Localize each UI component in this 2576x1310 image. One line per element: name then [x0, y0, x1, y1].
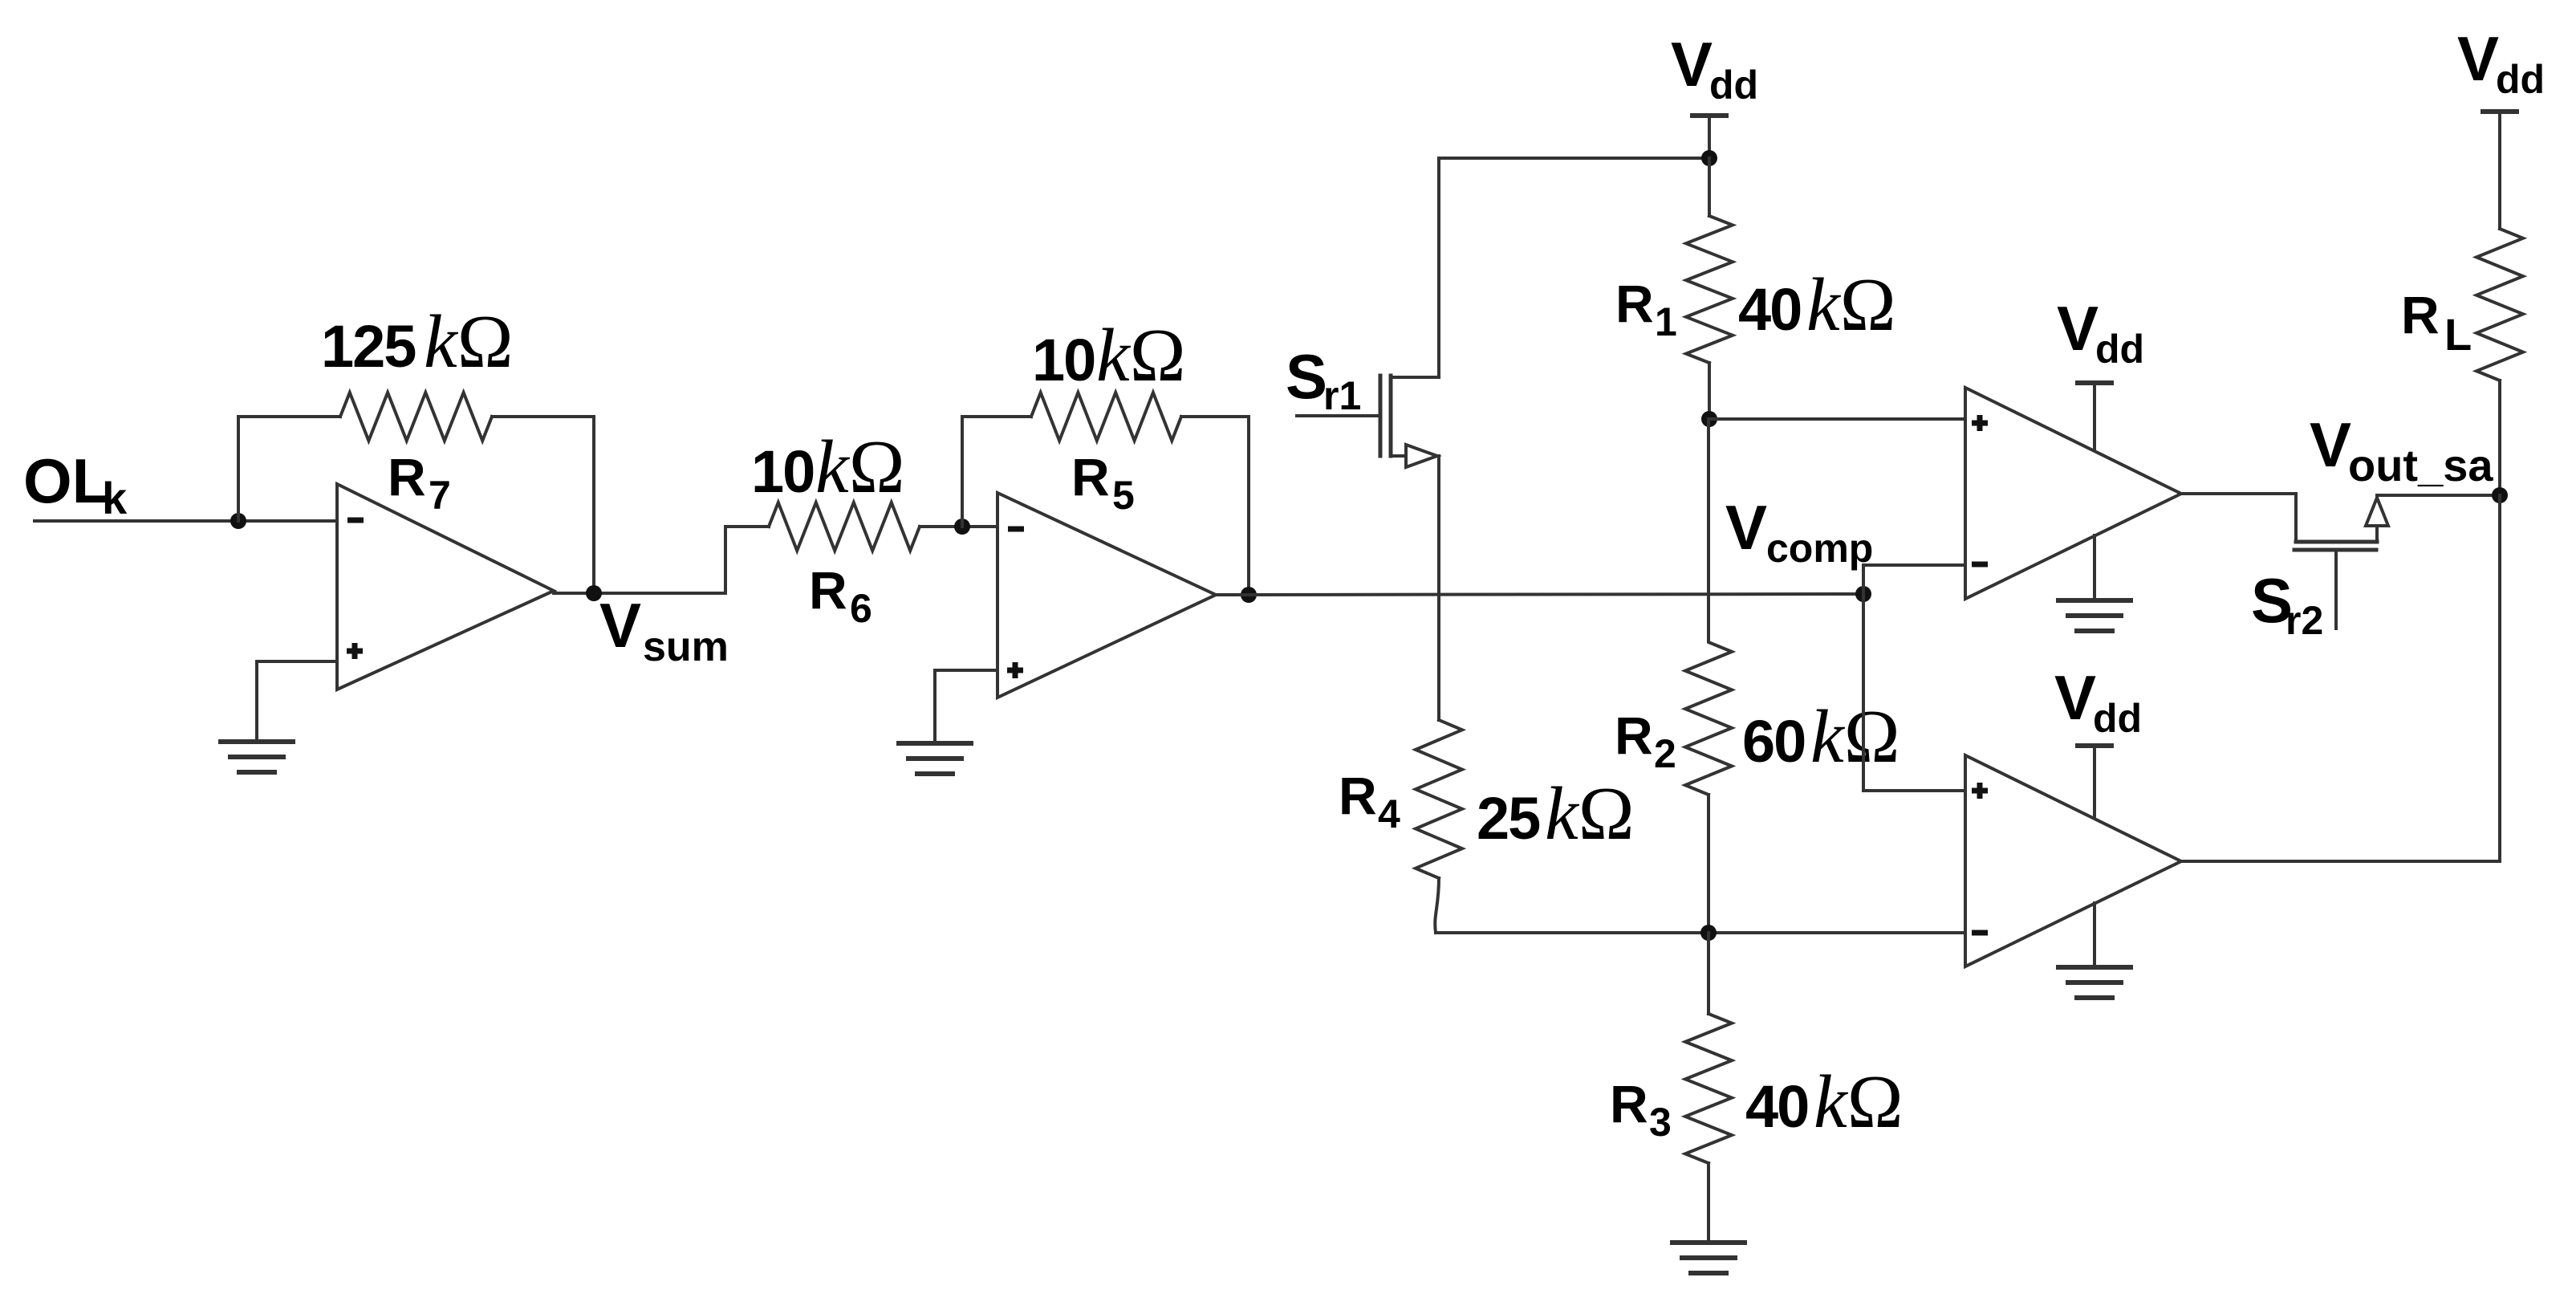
wire Sr1 drain arm: [1391, 158, 1439, 377]
svg-text:comp: comp: [1766, 526, 1873, 571]
resistor R3 40k zigzag: [1685, 1014, 1732, 1163]
wire U3 ground stem: [2093, 535, 2096, 600]
label R2 reference: [1615, 706, 1676, 776]
svg-text:R: R: [809, 560, 847, 620]
svg-text:60: 60: [1742, 708, 1805, 775]
wire Sr2 source to Vout node: [2377, 494, 2500, 497]
wire Sr2 drain jog down: [2294, 494, 2298, 542]
node Vcomp junction: [1855, 586, 1871, 602]
label 40 kOhm value of R1: [1738, 263, 1896, 347]
resistor R4 25k zigzag: [1416, 720, 1462, 933]
power Vdd symbol above U3: [2075, 383, 2114, 450]
label 40 kOhm value of R3: [1745, 1060, 1904, 1144]
svg-text:sum: sum: [643, 624, 729, 670]
label Vsum: [599, 590, 729, 670]
wire Vcomp to U3 inverting input: [1863, 565, 1965, 594]
power Vdd symbol above RL: [2481, 112, 2519, 229]
op-amp U2 triangle: [997, 493, 1216, 698]
wire R7 left lead: [238, 415, 340, 418]
label Vout_sa: [2310, 409, 2493, 490]
wire feedback left vertical: [237, 417, 240, 521]
node R2-R3 junction: [1700, 925, 1717, 941]
op-amp U1 plus marker: [347, 643, 363, 659]
wire RL bottom lead: [2498, 380, 2501, 495]
wire Vout down right rail: [2498, 495, 2501, 861]
svg-text:kΩ: kΩ: [1814, 1060, 1904, 1144]
wire R3 bottom lead: [1707, 1163, 1710, 1243]
svg-text:dd: dd: [2496, 57, 2545, 102]
wire R6 right lead: [920, 525, 997, 528]
wire R5 left lead: [962, 415, 1031, 418]
label R5 reference: [1071, 447, 1135, 518]
svg-text:R: R: [1615, 274, 1654, 333]
svg-text:125: 125: [321, 313, 416, 380]
svg-text:R: R: [1615, 706, 1653, 765]
svg-text:7: 7: [429, 473, 451, 518]
label Vdd above RL: [2457, 23, 2545, 102]
wire R1 bottom lead: [1708, 363, 1711, 419]
label 25 kOhm value of R4: [1477, 772, 1635, 856]
svg-text:40: 40: [1745, 1073, 1808, 1140]
label R6 reference: [809, 560, 872, 631]
label Vcomp: [1725, 492, 1873, 571]
op-amp comparator U4 triangle: [1965, 755, 2181, 966]
op-amp U1 minus marker: [347, 518, 364, 523]
op-amp U3 minus marker: [1972, 562, 1988, 568]
wire U2 output to Vcomp: [1216, 594, 1863, 595]
label 60 kOhm value of R2: [1742, 695, 1900, 779]
transistor Q2 source arrow: [2366, 498, 2388, 526]
svg-text:V: V: [2057, 293, 2099, 364]
transistor Q1 Sr1 channel bar: [1389, 376, 1393, 456]
svg-text:r2: r2: [2285, 598, 2323, 643]
wire OLk input: [35, 519, 337, 523]
label 10 kOhm value of R5: [1032, 314, 1186, 397]
label R3 reference: [1610, 1074, 1672, 1145]
wire R7 right lead: [492, 415, 594, 418]
power Vdd symbol above U4: [2075, 746, 2114, 818]
svg-text:kΩ: kΩ: [1810, 695, 1900, 779]
wire R5 right lead: [1181, 415, 1249, 418]
wire Sr1 gate lead: [1297, 414, 1378, 417]
transistor Q2 Sr2 channel bar: [2296, 540, 2377, 544]
svg-text:dd: dd: [2093, 696, 2142, 741]
label Vdd above U3: [2057, 293, 2144, 372]
wire feedback right vertical to Vsum: [592, 417, 595, 593]
svg-text:r1: r1: [1323, 373, 1361, 418]
node Vsum junction: [586, 585, 602, 601]
wire node to comparator U3 plus input: [1709, 417, 1965, 421]
svg-text:10: 10: [751, 438, 814, 505]
node junction at inverting input of U2: [954, 519, 970, 535]
svg-text:OL: OL: [23, 445, 110, 516]
wire Sr2 arrow stem: [2375, 526, 2379, 542]
svg-text:1: 1: [1655, 299, 1677, 344]
svg-text:V: V: [1725, 492, 1767, 563]
wire Sr1 source down to R4: [1437, 456, 1440, 720]
transistor Q2 Sr2 gate plate: [2294, 548, 2376, 552]
svg-text:R: R: [1339, 766, 1377, 825]
svg-text:L: L: [2444, 309, 2472, 360]
resistor R7 125k zigzag: [340, 393, 492, 441]
wire R6 left lead: [725, 525, 769, 528]
svg-text:R: R: [1610, 1074, 1648, 1133]
ground below U4: [2056, 967, 2133, 998]
label Vdd above R1: [1671, 29, 1758, 108]
transistor Q1 Sr1 gate plate: [1379, 376, 1383, 456]
wire jog up to R6: [724, 527, 727, 593]
svg-text:V: V: [2310, 409, 2351, 480]
wire top rail to Vdd node: [1439, 157, 1709, 160]
wire U1 output: [554, 592, 725, 595]
node U2 output junction: [1241, 587, 1257, 603]
svg-text:kΩ: kΩ: [424, 300, 514, 384]
op-amp U2 minus marker: [1008, 527, 1024, 532]
ground below R3: [1670, 1243, 1747, 1273]
label RL reference: [2401, 285, 2472, 360]
svg-text:kΩ: kΩ: [1096, 314, 1186, 397]
svg-text:6: 6: [850, 586, 872, 631]
svg-text:R: R: [388, 447, 426, 507]
svg-text:kΩ: kΩ: [1806, 263, 1896, 347]
op-amp U2 plus marker: [1007, 662, 1023, 678]
resistor R6 10k zigzag: [769, 502, 920, 551]
label Sr2: [2251, 565, 2323, 643]
svg-text:V: V: [2457, 23, 2499, 94]
svg-text:kΩ: kΩ: [1545, 772, 1635, 856]
wire R5 feedback left vertical: [961, 417, 964, 527]
transistor Q1 source arrow: [1406, 445, 1437, 467]
label R1 reference: [1615, 274, 1677, 344]
op-amp comparator U3 triangle: [1965, 388, 2181, 599]
svg-text:25: 25: [1477, 785, 1540, 852]
ground below U1: [218, 742, 295, 772]
wire U4 ground stem: [2093, 903, 2096, 967]
wire R5 feedback right vertical: [1247, 417, 1250, 594]
svg-text:dd: dd: [2095, 327, 2144, 372]
node R1-R2 junction: [1701, 411, 1717, 427]
wire U3 output: [2181, 492, 2296, 495]
svg-text:4: 4: [1378, 791, 1400, 836]
wire Sr1 source arm: [1391, 454, 1406, 458]
label Vdd above U4: [2054, 662, 2142, 741]
label R4 reference: [1339, 766, 1400, 836]
ground below U2: [896, 743, 973, 774]
node junction at inverting input of U1: [230, 513, 246, 529]
svg-text:V: V: [1671, 29, 1713, 100]
svg-text:40: 40: [1738, 276, 1801, 343]
ground below U3: [2056, 600, 2133, 631]
wire U4 output to right rail: [2181, 860, 2500, 863]
svg-text:S: S: [1286, 341, 1327, 412]
node Vout_sa junction: [2492, 487, 2508, 503]
resistor R5 10k zigzag: [1031, 393, 1181, 441]
op-amp U4 minus marker: [1972, 930, 1988, 936]
wire Vcomp to U4 noninverting input: [1863, 594, 1965, 791]
svg-text:kΩ: kΩ: [815, 425, 905, 509]
wire U1 ground stem: [255, 661, 258, 742]
label R7 reference: [388, 447, 451, 518]
svg-text:R: R: [1071, 447, 1110, 507]
power Vdd symbol above R1: [1690, 116, 1729, 158]
svg-text:3: 3: [1649, 1100, 1672, 1145]
wire U2 ground stem: [933, 670, 937, 743]
svg-text:out_sa: out_sa: [2348, 440, 2493, 490]
wire U1 noninverting input: [257, 660, 337, 663]
resistor R2 60k zigzag: [1685, 419, 1732, 933]
op-amp U3 plus marker: [1972, 415, 1988, 431]
wire R1 top lead: [1708, 158, 1711, 216]
op-amp U4 plus marker: [1972, 783, 1988, 799]
label 125 kOhm value of R7: [321, 300, 514, 384]
svg-text:10: 10: [1032, 327, 1095, 393]
wire R4/R2/R3 node to comparator U4 minus input: [1436, 931, 1965, 934]
label Sr1: [1286, 341, 1361, 418]
svg-text:V: V: [599, 590, 641, 661]
label 10 kOhm value of R6: [751, 425, 905, 509]
svg-text:5: 5: [1112, 473, 1135, 518]
wire Sr2 gate stem: [2334, 551, 2338, 629]
svg-text:dd: dd: [1709, 63, 1758, 108]
svg-text:R: R: [2401, 285, 2440, 344]
wire R3 top lead: [1707, 933, 1710, 1014]
svg-text:V: V: [2054, 662, 2096, 733]
svg-text:2: 2: [1654, 731, 1676, 776]
node Vdd junction: [1701, 150, 1717, 166]
svg-text:k: k: [102, 473, 128, 523]
resistor R1 40k zigzag: [1686, 216, 1733, 363]
op-amp U1 triangle: [337, 484, 554, 690]
node OLk input label: [23, 445, 128, 523]
resistor RL zigzag: [2476, 229, 2523, 380]
wire U2 noninverting input: [935, 669, 997, 672]
